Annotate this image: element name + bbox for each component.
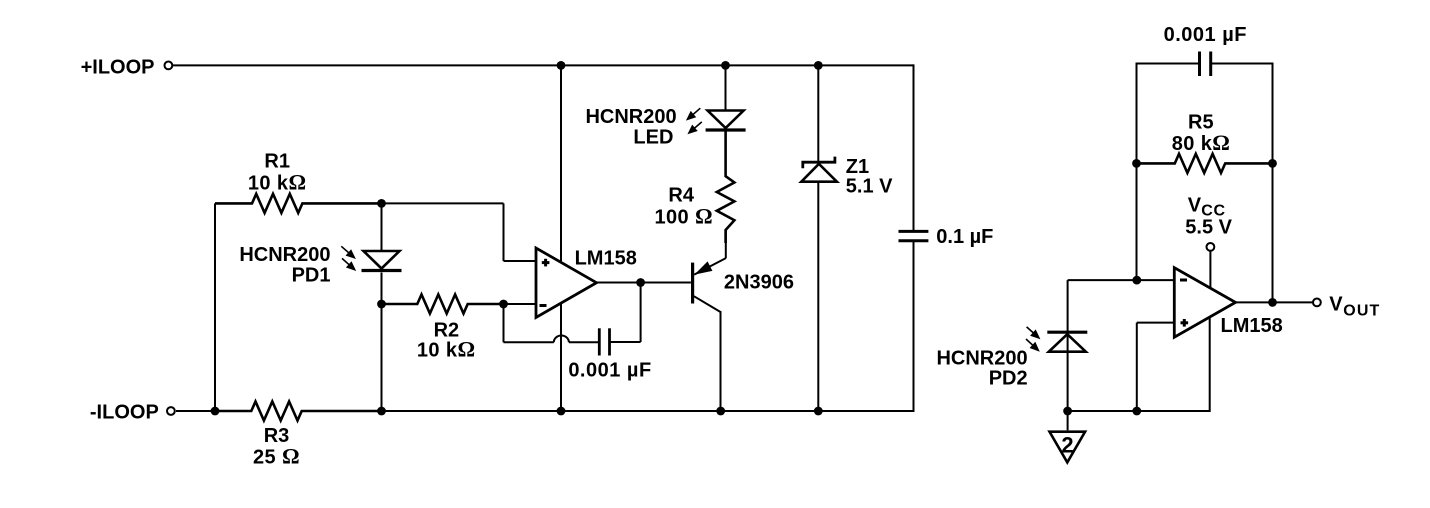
- junction op-amp -in: [499, 300, 508, 309]
- wire cap to output: [610, 341, 641, 343]
- svg-text:OUT: OUT: [1343, 303, 1380, 320]
- junction R5 right: [1268, 159, 1277, 168]
- svg-text:Z1: Z1: [846, 156, 869, 178]
- transistor Q1 collector: [694, 296, 721, 312]
- op-amp U1 minus: [540, 304, 547, 307]
- light arrows PD1: [341, 246, 352, 255]
- junction collector rail: [716, 407, 725, 416]
- junction R1 right: [377, 199, 386, 208]
- wire PD1 to rail: [381, 304, 383, 411]
- op-amp U2: [1174, 268, 1235, 338]
- wire right left vertical: [1136, 63, 1138, 281]
- resistor R1: [215, 194, 382, 213]
- svg-text:10 kΩ: 10 kΩ: [417, 337, 476, 362]
- transistor Q1 base bar: [691, 263, 694, 304]
- junction LED top: [721, 61, 730, 70]
- junction R5 left: [1132, 159, 1141, 168]
- svg-text:100 Ω: 100 Ω: [654, 204, 713, 229]
- zener Z1 triangle: [801, 164, 837, 182]
- resistor R2: [382, 295, 504, 314]
- op-amp U2 supply bottom: [1209, 317, 1211, 412]
- svg-text:2N3906: 2N3906: [724, 271, 794, 293]
- op-amp U1 plus: [542, 261, 550, 264]
- resistor R3: [215, 402, 382, 421]
- svg-text:10 kΩ: 10 kΩ: [248, 170, 307, 195]
- svg-text:HCNR200: HCNR200: [239, 244, 330, 266]
- svg-text:HCNR200: HCNR200: [585, 106, 676, 128]
- light arrows PD2: [1027, 327, 1037, 336]
- svg-text:2: 2: [1061, 433, 1073, 458]
- junction -in2: [1132, 276, 1141, 285]
- junction output: [636, 278, 645, 287]
- resistor R4: [717, 132, 735, 244]
- wire right edge upper: [913, 64, 915, 231]
- svg-text:V: V: [1188, 195, 1202, 217]
- wire +in2: [1137, 322, 1175, 324]
- svg-text:+ILOOP: +ILOOP: [81, 57, 155, 79]
- wire right bottom rail: [1068, 410, 1210, 412]
- capacitor C2 0.1uF plates: [899, 230, 929, 233]
- svg-text:PD1: PD1: [292, 264, 331, 286]
- terminal VCC: [1207, 243, 1215, 251]
- wire -in: [504, 303, 537, 305]
- op-amp U2 plus: [1181, 321, 1189, 324]
- wire feedback down: [503, 304, 505, 342]
- svg-text:LED: LED: [633, 126, 673, 148]
- wire bottom rail: [176, 410, 216, 412]
- svg-text:80 kΩ: 80 kΩ: [1172, 130, 1231, 155]
- svg-text:0.1 µF: 0.1 µF: [936, 226, 993, 248]
- capacitor C3 0.001uF: [1198, 52, 1201, 77]
- LED HCNR200: [725, 65, 727, 110]
- wire left vertical: [214, 203, 216, 411]
- svg-text:LM158: LM158: [1221, 315, 1283, 337]
- op-amp U1: [536, 248, 597, 318]
- svg-text:25 Ω: 25 Ω: [253, 444, 300, 469]
- light arrows LED: [690, 108, 701, 117]
- wire right edge lower: [913, 241, 915, 412]
- photodiode PD2: [1067, 280, 1069, 411]
- svg-text:-ILOOP: -ILOOP: [90, 402, 159, 424]
- resistor R5: [1137, 154, 1273, 173]
- zener Z1: [817, 65, 819, 162]
- junction Z1 bottom: [814, 407, 823, 416]
- svg-text:R1: R1: [264, 150, 290, 172]
- junction output2: [1268, 298, 1277, 307]
- op-amp U2 minus: [1180, 279, 1187, 282]
- wire output2: [1236, 301, 1314, 303]
- junction +in2 rail: [1132, 407, 1141, 416]
- junction PD2 rail: [1063, 407, 1072, 416]
- svg-text:0.001 µF: 0.001 µF: [568, 360, 651, 382]
- terminal -ILOOP: [167, 407, 175, 415]
- svg-text:0.001 µF: 0.001 µF: [1164, 24, 1247, 46]
- wire feedback with hop: [504, 341, 554, 343]
- photodiode PD1: [381, 203, 383, 251]
- wire top rail: [172, 64, 913, 66]
- svg-text:5.5 V: 5.5 V: [1185, 217, 1232, 239]
- junction PD1 bottom: [377, 300, 386, 309]
- svg-text:V: V: [1329, 294, 1343, 316]
- wire right right vertical: [1272, 63, 1274, 303]
- svg-text:R5: R5: [1188, 112, 1214, 134]
- junction supply top: [557, 61, 566, 70]
- svg-text:R4: R4: [668, 185, 694, 207]
- capacitor C1 0.001uF: [598, 328, 601, 355]
- terminal +ILOOP: [165, 62, 173, 70]
- junction Z1 top: [814, 61, 823, 70]
- op-amp U1 supply bottom: [560, 303, 562, 411]
- svg-text:LM158: LM158: [575, 247, 637, 269]
- junction PD1 rail: [377, 407, 386, 416]
- junction supply bottom: [557, 407, 566, 416]
- wire VCC stub: [1209, 251, 1211, 289]
- svg-text:R2: R2: [434, 319, 460, 341]
- transistor Q1 emitter: [725, 230, 727, 258]
- svg-text:PD2: PD2: [989, 367, 1028, 389]
- wire R1 to +in corner: [382, 202, 504, 204]
- ground 2 symbol: [1050, 432, 1086, 463]
- zener Z1 bar: [803, 157, 835, 169]
- op-amp U1 supply top: [560, 65, 562, 261]
- transistor Q1 emitter arrow: [694, 261, 712, 274]
- svg-text:5.1 V: 5.1 V: [846, 176, 893, 198]
- wire right top rail: [1137, 63, 1199, 65]
- wire -in2: [1068, 279, 1175, 281]
- terminal VOUT: [1313, 299, 1321, 307]
- wire op-amp output: [597, 282, 691, 284]
- junction bottom-left: [211, 407, 220, 416]
